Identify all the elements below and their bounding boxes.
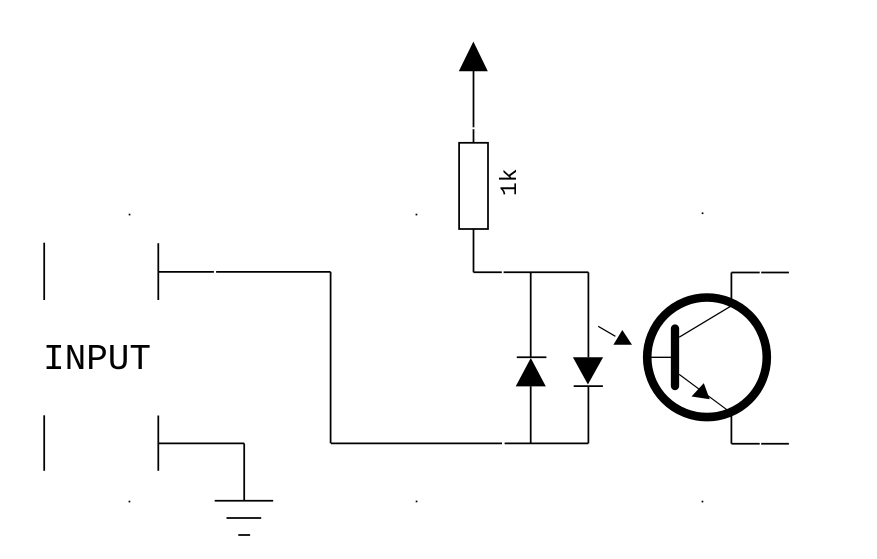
- svg-text:INPUT: INPUT: [43, 339, 151, 380]
- svg-text:1k: 1k: [497, 168, 523, 196]
